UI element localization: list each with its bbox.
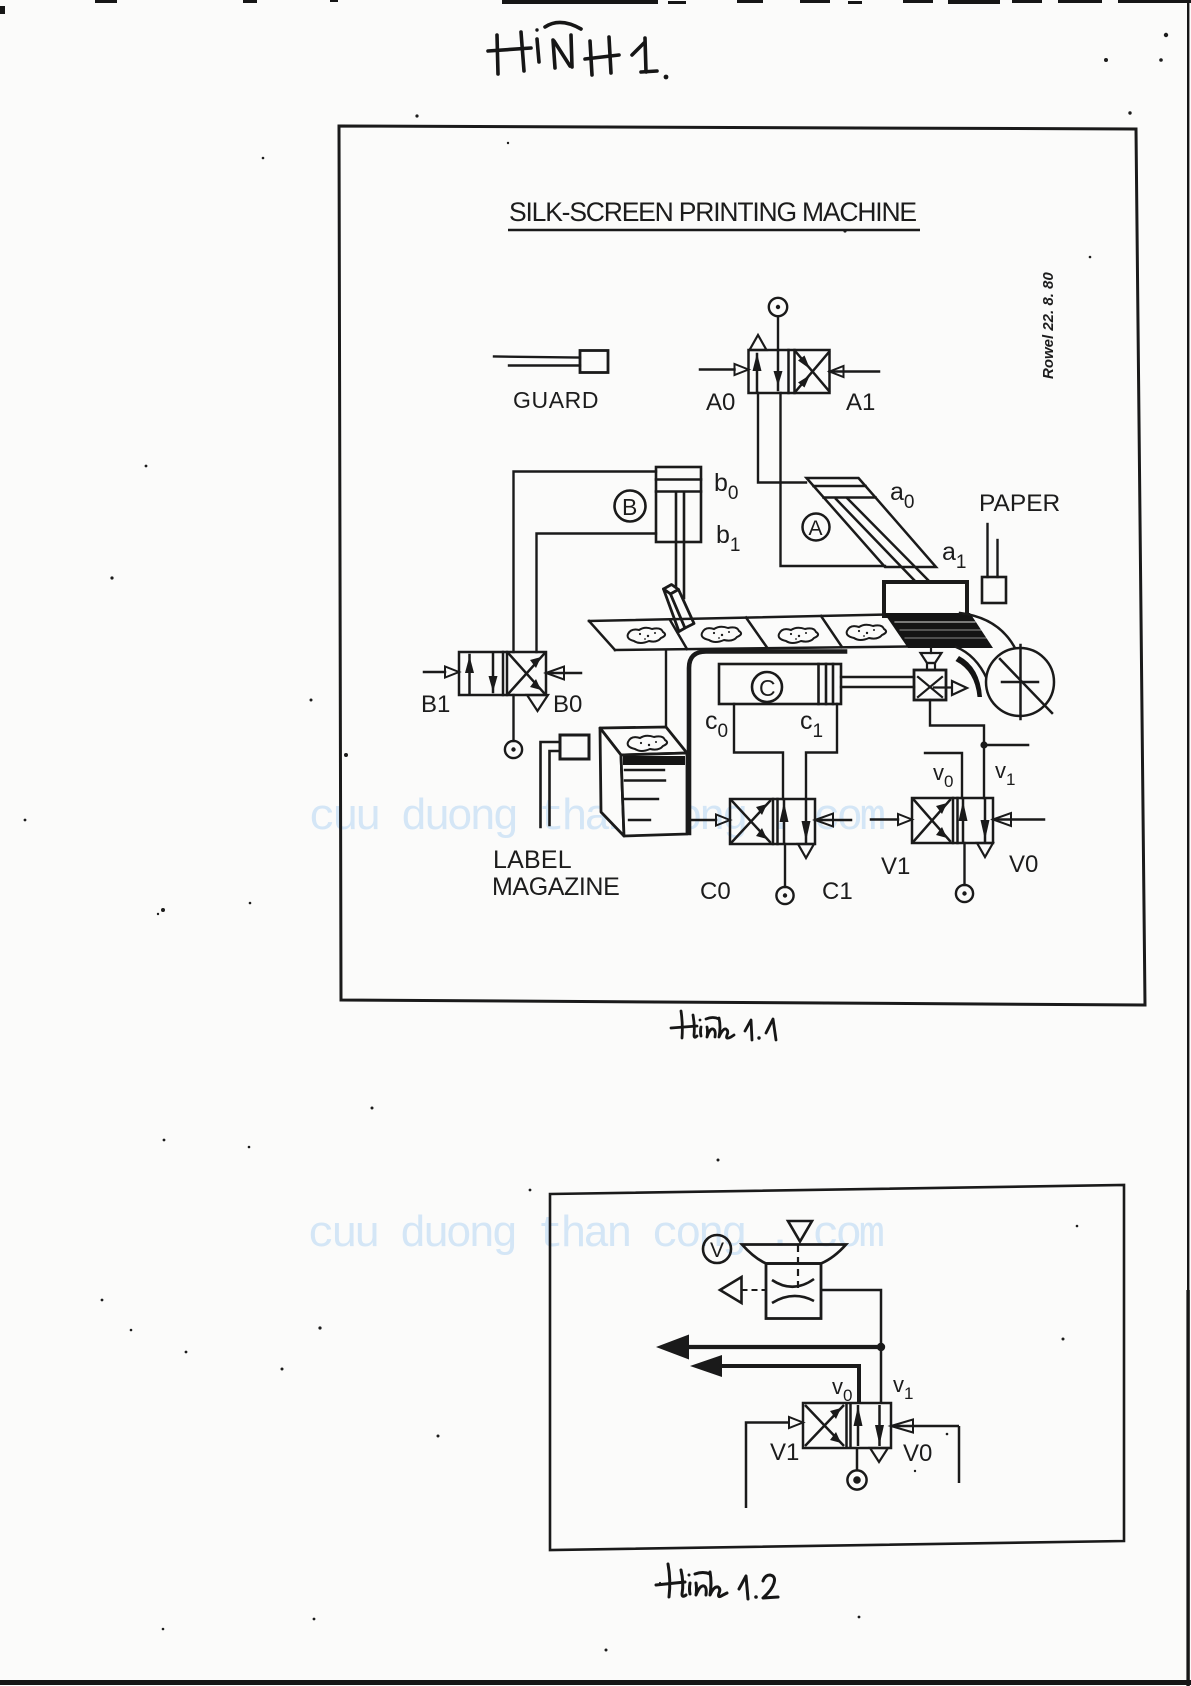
wire v1 from junction to valve xyxy=(880,1347,883,1403)
wire b0: valve B to cylinder B top port xyxy=(514,472,657,653)
valve V (4/2) xyxy=(871,798,1044,857)
caption Hinh 1.1 (handwritten) xyxy=(671,1011,776,1040)
wire stub right of junction xyxy=(984,744,1028,747)
suction cup under screen xyxy=(921,648,942,670)
squeegee head box xyxy=(884,582,967,616)
wire c0: under cylinder C to valve C xyxy=(734,704,783,799)
svg-text:MAGAZINE: MAGAZINE xyxy=(492,873,619,901)
wire A0 output: valve A to cylinder A cap end xyxy=(758,393,806,483)
svg-text:A0: A0 xyxy=(706,389,735,416)
wire b1: valve B to cylinder B bottom port xyxy=(537,534,657,653)
svg-text:V0: V0 xyxy=(903,1440,932,1467)
conveyor front edge xyxy=(615,647,908,651)
pressure source circle above valve A xyxy=(769,298,787,350)
blob speckles xyxy=(639,629,875,640)
valve C (4/2) xyxy=(686,799,851,858)
wire from belt down to magazine xyxy=(665,650,667,727)
wire from vacuum head to junction and valve V xyxy=(930,700,984,798)
label magazine 3D box xyxy=(600,727,687,836)
label blob 2 on belt xyxy=(702,627,741,642)
label blob 4 on belt xyxy=(847,625,886,640)
suction cup funnel xyxy=(742,1245,846,1264)
svg-text:SILK-SCREEN PRINTING MACHINE: SILK-SCREEN PRINTING MACHINE xyxy=(509,197,918,227)
wire A1 output: valve A to cylinder A rod end xyxy=(781,393,886,566)
inked screen area (dark) xyxy=(884,613,993,648)
conveyor left end slant xyxy=(589,621,615,650)
main figure frame (Hinh 1.1) xyxy=(339,126,1145,1005)
label blob on magazine xyxy=(628,736,667,751)
svg-text:B1: B1 xyxy=(421,691,450,718)
junction node xyxy=(877,1343,885,1351)
scanner bottom edge line xyxy=(0,1680,1191,1685)
component circle B xyxy=(615,491,646,522)
svg-text:V0: V0 xyxy=(1009,851,1038,878)
paper feed lines xyxy=(982,524,1006,603)
junction node v1 xyxy=(980,741,987,748)
scanner right edge line xyxy=(1187,0,1189,1686)
supply line + source circle under valve C xyxy=(776,844,793,904)
svg-text:A1: A1 xyxy=(846,389,875,416)
component circle V xyxy=(703,1235,731,1263)
piston rod of A xyxy=(836,499,915,581)
paper stack box xyxy=(982,577,1006,603)
venturi throat arcs xyxy=(772,1279,814,1287)
svg-text:V: V xyxy=(710,1239,724,1262)
label blob 1 on belt xyxy=(628,628,665,643)
svg-text:C0: C0 xyxy=(700,878,731,905)
second figure frame (Hinh 1.2) xyxy=(550,1185,1124,1550)
supply line + source circle under valve B xyxy=(505,695,522,758)
valve B (4/2) xyxy=(424,652,581,711)
svg-text:B0: B0 xyxy=(553,691,582,718)
corner mark top-left xyxy=(0,6,5,14)
exhaust triangle left of venturi xyxy=(720,1277,742,1303)
svg-text:cuu duong than cong . com: cuu duong than cong . com xyxy=(308,1210,885,1260)
flow arrow 2 (thick, to the left) xyxy=(722,1366,859,1403)
scattered scan specks xyxy=(415,114,418,117)
svg-text:GUARD: GUARD xyxy=(513,387,599,413)
valve A (4/2) xyxy=(700,335,879,393)
pilot wire right xyxy=(958,1426,961,1483)
vacuum generator head xyxy=(914,670,967,700)
component circle A xyxy=(803,514,830,541)
piston rod from cylinder C to vacuum head xyxy=(841,677,914,687)
supply line + source circle under valve xyxy=(847,1448,866,1490)
pilot wire left xyxy=(746,1423,762,1509)
inclined cylinder A body xyxy=(807,478,937,581)
flow arrow 1 (thick, to the left) xyxy=(689,1345,881,1349)
drum shadow crescent xyxy=(956,656,983,697)
svg-text:PAPER: PAPER xyxy=(979,490,1060,517)
air inlet triangle above suction cup xyxy=(788,1221,812,1242)
wire from venturi to junction xyxy=(821,1290,881,1347)
svg-text:A: A xyxy=(809,517,823,540)
supply line + source circle under valve V xyxy=(956,843,973,902)
venturi body box xyxy=(766,1264,821,1319)
svg-text:B: B xyxy=(622,494,637,520)
guard sensor xyxy=(494,351,608,373)
handwritten page title "HINH 1." xyxy=(488,22,668,79)
caption Hinh 1.2 (handwritten) xyxy=(656,1564,778,1599)
belt cell divider 2 xyxy=(746,618,767,648)
scanner top edge dashes xyxy=(95,0,117,3)
valve V (4/2) of fig 1.2 xyxy=(762,1403,959,1462)
svg-text:C: C xyxy=(759,675,776,701)
component circle C xyxy=(752,672,782,702)
svg-text:Rowel 22. 8. 80: Rowel 22. 8. 80 xyxy=(1040,272,1057,379)
belt cell divider 3 xyxy=(821,616,842,647)
paper roller drum xyxy=(956,613,1054,719)
belt cell divider 1 xyxy=(670,620,687,649)
svg-text:V1: V1 xyxy=(881,853,910,880)
svg-text:C1: C1 xyxy=(822,878,853,905)
wire c1: under cylinder C to valve C xyxy=(806,704,837,799)
label stack in magazine xyxy=(623,756,685,820)
conveyor belt top edge xyxy=(589,615,908,651)
frame wire from belt to magazine right side xyxy=(689,652,845,834)
pusher foot on rod of B xyxy=(664,585,695,632)
label blob 3 on belt xyxy=(779,628,818,643)
sensor wires xyxy=(541,742,561,827)
svg-text:LABEL: LABEL xyxy=(493,846,572,874)
svg-text:V1: V1 xyxy=(770,1439,799,1466)
cylinder B (vertical) xyxy=(656,467,701,598)
venturi dashed axis xyxy=(797,1245,799,1291)
cylinder C (horizontal) xyxy=(719,664,841,704)
sensor box near magazine xyxy=(560,735,589,759)
wire v0 bracket to valve V xyxy=(925,753,962,798)
svg-text:cuu duong than cong . com: cuu duong than cong . com xyxy=(309,793,886,843)
